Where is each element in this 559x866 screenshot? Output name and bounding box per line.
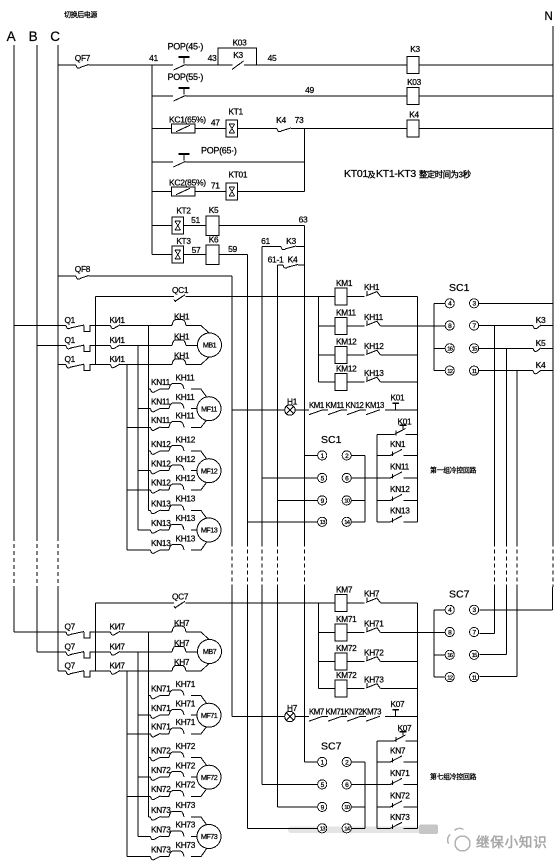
contactor coil KM1 row 1 (335, 288, 347, 305)
wire SC1 right terminal bus (364, 455, 366, 521)
motor MF72 (197, 765, 221, 789)
svg-text:KH71: KH71 (176, 717, 196, 727)
contactor coil KM11 row 2 (318, 325, 335, 327)
svg-text:第一组冷控回路: 第一组冷控回路 (430, 466, 477, 475)
wire feeder SC terminal 15 vertical x506.5 (506, 348, 508, 542)
svg-text:KC2(85%): KC2(85%) (169, 177, 206, 187)
wire feeder node 61-1 vertical x277 (276, 265, 278, 501)
wire row to rail (381, 688, 418, 690)
coil rung contact KN71 (376, 762, 378, 785)
wire fan feeder phase A vertical (148, 325, 150, 510)
svg-text:KM1 KM11 KN12 KM13: KM1 KM11 KN12 KM13 (309, 401, 384, 410)
svg-text:KN71: KN71 (390, 768, 410, 778)
wire SC7-15 from feeder (480, 654, 507, 656)
wire phase A vertical bus (13, 45, 15, 537)
svg-text:KN12: KN12 (151, 459, 171, 469)
terminal SC1-4 (434, 302, 445, 304)
svg-text:12: 12 (447, 369, 452, 375)
svg-text:C: C (50, 29, 60, 44)
svg-text:KN72: KN72 (151, 746, 171, 756)
svg-text:KH12: KH12 (176, 473, 196, 483)
overload heater KH73 pole 3 (169, 851, 184, 857)
svg-text:KN71: KN71 (151, 703, 171, 713)
svg-text:KИ7: KИ7 (110, 641, 126, 651)
wire KT1 to contact K4 (238, 128, 277, 130)
svg-text:KH1: KH1 (174, 351, 190, 361)
wire to heater KH71 pole 1 (161, 695, 170, 697)
wire SC1 terminal 5 line (262, 477, 318, 479)
svg-text:Q7: Q7 (65, 661, 76, 671)
contact KN13 pole 3 (127, 549, 151, 551)
contact KH71 (347, 632, 365, 634)
terminal SC7-13 (318, 824, 327, 833)
wire node 71 (195, 191, 226, 193)
svg-text:QF7: QF7 (75, 53, 91, 63)
watermark logo (448, 828, 470, 851)
svg-text:KN73: KN73 (151, 805, 171, 815)
terminal block SC1 bracket (433, 303, 435, 370)
contact KN72 pole 1 (149, 757, 151, 759)
svg-text:KN12: KN12 (390, 484, 410, 494)
switch Q7 pole 2 (37, 651, 66, 653)
contact KN71 pole 3 (127, 733, 151, 735)
wire K4 coil to N (419, 128, 553, 130)
svg-text:K3: K3 (286, 236, 296, 246)
contact KN12 pole 1 (149, 450, 151, 452)
wire phase row 2 to heater (120, 651, 172, 653)
coil rung contact KN73 (376, 807, 378, 828)
svg-text:KH73: KH73 (364, 674, 384, 684)
svg-text:41: 41 (149, 53, 158, 63)
svg-text:KH11: KH11 (176, 392, 196, 402)
svg-text:MF73: MF73 (201, 832, 218, 841)
svg-text:KT01: KT01 (344, 168, 368, 180)
svg-text:QC1: QC1 (172, 285, 189, 295)
wire to heater KH13 pole 2 (161, 529, 170, 531)
contact KN73 pole 2 (138, 836, 151, 838)
contact KИ1 pole 2 (90, 345, 111, 347)
contact KH13 (347, 381, 365, 383)
wire to heater KH73 pole 2 (161, 836, 170, 838)
wire lamp line (295, 409, 309, 411)
wire to heater KH72 pole 3 (161, 795, 170, 797)
wire row to rail (381, 632, 446, 634)
wire feeder SC terminal 11 vertical x517 (516, 371, 518, 543)
wire QC7 drop vertical (95, 603, 97, 671)
svg-text:KN73: KN73 (390, 812, 410, 822)
motor MF13 (197, 518, 221, 542)
svg-text:43: 43 (208, 53, 217, 63)
svg-text:47: 47 (211, 117, 220, 127)
svg-text:73: 73 (295, 115, 304, 125)
svg-text:KH7: KH7 (174, 657, 190, 667)
coil rung contact KN13 (376, 500, 378, 521)
overload heater KH7 pole 1 (172, 626, 186, 632)
terminal SC1-3 (470, 299, 479, 308)
wire fan feeder phase B vertical (137, 346, 139, 531)
motor MF11 (197, 397, 221, 421)
wire node 63 vertical (304, 226, 306, 247)
wire node 63 (219, 225, 305, 227)
svg-text:KN13: KN13 (151, 538, 171, 548)
wire K03 coil to N (419, 95, 553, 97)
terminal SC1-13 (318, 517, 327, 526)
wire SC7-11 from feeder (480, 675, 517, 677)
svg-text:KH11: KH11 (364, 312, 384, 322)
overload heater KH11 pole 1 (169, 384, 184, 390)
svg-text:KH72: KH72 (176, 741, 196, 751)
svg-text:Q7: Q7 (65, 621, 76, 631)
svg-text:KH1: KH1 (174, 332, 190, 342)
svg-text:61-1: 61-1 (268, 255, 284, 265)
terminal SC7-9 (318, 802, 327, 811)
svg-text:POP(65·): POP(65·) (201, 146, 237, 156)
terminal SC7-11 (470, 673, 479, 682)
wire contactor coil rail vertical (317, 296, 319, 382)
relay coil K6 (206, 245, 219, 264)
wire motor MF13 leads (191, 511, 209, 522)
contact K3 at SC1-7 (479, 325, 533, 327)
svg-text:KИ1: KИ1 (110, 354, 126, 364)
motor MF71 (197, 703, 221, 727)
terminal SC1-12 (434, 370, 445, 372)
contact KN11 pole 2 (138, 408, 151, 410)
svg-text:16: 16 (447, 653, 452, 659)
svg-text:57: 57 (192, 245, 201, 255)
wire row to rail (381, 354, 418, 356)
svg-text:KИ1: KИ1 (110, 335, 126, 345)
overload heater KH72 pole 2 (169, 772, 184, 778)
overload heater KH71 pole 3 (169, 728, 184, 734)
svg-text:KИ7: KИ7 (110, 661, 126, 671)
wire KT01 to junction vertical (238, 191, 305, 193)
svg-text:Q7: Q7 (65, 641, 76, 651)
svg-text:SC7: SC7 (321, 741, 342, 753)
svg-text:59: 59 (228, 244, 237, 254)
overload heater KH11 pole 2 (169, 403, 184, 409)
svg-text:KN72: KN72 (390, 791, 410, 801)
svg-text:KT3: KT3 (176, 236, 191, 246)
svg-text:KH13: KH13 (176, 513, 196, 523)
terminal SC1-5 (318, 473, 327, 482)
switch Q1 pole 2 (37, 345, 66, 347)
svg-text:KM11: KM11 (336, 308, 357, 318)
svg-text:KH72: KH72 (176, 780, 196, 790)
svg-text:KM12: KM12 (336, 337, 357, 347)
terminal block SC7 bracket (433, 610, 435, 677)
wire feeder SC terminal 7 vertical x494.5 (494, 326, 496, 543)
wire QC7 line to contactor rail (186, 602, 336, 604)
svg-text:11: 11 (472, 369, 477, 375)
relay coil K4 (407, 120, 419, 137)
svg-text:KH73: KH73 (176, 840, 196, 850)
svg-text:继保小知识: 继保小知识 (476, 834, 548, 850)
wire feeder node 59 vertical x247.5 (247, 255, 249, 522)
relay coil K03 (407, 88, 419, 105)
terminal SC7-4 (434, 609, 445, 611)
svg-text:KN11: KN11 (151, 377, 171, 387)
terminal SC7-16 (434, 654, 445, 656)
terminal SC7-7 (470, 627, 479, 636)
contact KИ1 pole 1 (90, 324, 111, 326)
svg-text:KM7: KM7 (336, 585, 353, 595)
contact KN73 pole 1 (149, 816, 151, 818)
terminal SC7-5 (318, 780, 327, 789)
svg-text:KH73: KH73 (176, 800, 196, 810)
svg-text:切换后电源: 切换后电源 (64, 10, 97, 19)
wire motor MF12 leads (191, 451, 209, 462)
svg-text:KH13: KH13 (176, 533, 196, 543)
svg-text:K4: K4 (288, 255, 298, 265)
wire phase row 2 to heater (120, 345, 172, 347)
contact KN13 pole 1 (149, 510, 151, 512)
svg-text:B: B (29, 29, 38, 44)
svg-text:10: 10 (344, 499, 349, 505)
overload heater KH12 pole 1 (169, 446, 184, 452)
svg-text:15: 15 (472, 653, 477, 659)
svg-text:KH1: KH1 (364, 282, 380, 292)
overload heater KH1 pole 2 (172, 340, 186, 346)
wire row to rail (381, 381, 418, 383)
wire SC1 terminal 13 line (248, 521, 318, 523)
wire N vertical bus (552, 26, 554, 543)
wire contactor rail vertical (416, 603, 418, 741)
motor MF73 (197, 825, 221, 849)
terminal SC7-6 (342, 780, 351, 789)
svg-text:KN7: KN7 (390, 746, 406, 756)
wire QC1 line to contactor rail (186, 295, 336, 297)
svg-text:K3: K3 (233, 50, 243, 60)
svg-text:K4: K4 (276, 115, 286, 125)
wire feeder node 61 vertical x262 (261, 247, 263, 478)
coil rung contact KN12 (376, 478, 378, 501)
wire SC1-3 to N (479, 302, 553, 304)
svg-text:K3: K3 (410, 44, 420, 54)
contact K4 at SC1-11 (479, 370, 533, 372)
wire lamp line (295, 716, 309, 718)
terminal SC1-8 (445, 321, 454, 330)
overload heater KH13 pole 1 (169, 505, 184, 511)
svg-text:KH13: KH13 (176, 494, 196, 504)
svg-text:13: 13 (320, 827, 325, 833)
wire motor MB7 phase leads (186, 632, 210, 641)
contact KN11 pole 3 (127, 426, 151, 428)
contact KH7 (347, 602, 365, 604)
svg-text:Q1: Q1 (65, 354, 76, 364)
wire row to rail (381, 602, 418, 604)
watermark streak (288, 827, 438, 834)
overload heater KH7 pole 3 (172, 665, 186, 671)
svg-text:KN72: KN72 (151, 784, 171, 794)
svg-text:KH13: KH13 (364, 368, 384, 378)
contact KH73 (347, 688, 365, 690)
wire SC7 terminal 13 line (248, 827, 318, 829)
svg-text:13: 13 (320, 520, 325, 526)
wire feeder node QF8 vertical x232 (231, 276, 233, 410)
terminal SC7-15 (470, 650, 479, 659)
wire to heater KH12 pole 2 (161, 470, 170, 472)
contact KИ7 pole 2 (90, 651, 111, 653)
overload heater KH1 pole 3 (172, 359, 186, 365)
wire phase row 1 to heater (120, 631, 172, 633)
wire to heater KH73 pole 1 (161, 816, 170, 818)
wire row to rail (381, 295, 418, 297)
wire motor MF73 leads (191, 817, 209, 828)
contact KИ1 pole 3 (90, 364, 111, 366)
terminal SC7-8 (445, 627, 454, 636)
coil rung contact KN1 (376, 435, 378, 456)
svg-text:10: 10 (344, 805, 349, 811)
wire SC7 terminal 1 stub (305, 761, 318, 763)
contact KN72 pole 3 (127, 795, 151, 797)
svg-text:KH11: KH11 (176, 372, 196, 382)
wire SC1 terminal 1 stub (305, 454, 318, 456)
svg-text:KN73: KN73 (151, 824, 171, 834)
svg-text:KH7: KH7 (174, 638, 190, 648)
wire QF8 to control feeder (89, 275, 233, 277)
svg-text:Q1: Q1 (65, 335, 76, 345)
svg-text:KH12: KH12 (364, 341, 384, 351)
wire POP(65) to junction (186, 161, 305, 163)
contact KN72 pole 2 (138, 776, 151, 778)
svg-text:KN13: KN13 (151, 498, 171, 508)
overload heater KH12 pole 3 (169, 484, 184, 490)
svg-text:KM72: KM72 (336, 670, 357, 680)
overload heater KH73 pole 1 (169, 811, 184, 817)
overload heater KH12 pole 2 (169, 465, 184, 471)
terminal SC1-14 (342, 517, 351, 526)
svg-text:71: 71 (211, 180, 220, 190)
contactor coil KM71 row 2 (318, 632, 335, 634)
svg-text:KM72: KM72 (336, 643, 357, 653)
svg-text:MF71: MF71 (201, 711, 218, 720)
terminal SC7-10 (342, 802, 351, 811)
wire motor MF11 leads (191, 389, 209, 400)
svg-text:SC7: SC7 (449, 589, 470, 601)
svg-text:K4: K4 (409, 110, 419, 120)
wire fan feeder phase C vertical (126, 671, 128, 857)
svg-text:MF12: MF12 (201, 466, 218, 475)
svg-text:K5: K5 (209, 205, 219, 215)
terminal SC7-1 (318, 757, 327, 766)
svg-text:KH1: KH1 (174, 311, 190, 321)
wire to heater KH71 pole 3 (161, 733, 170, 735)
wire lamp line junction to ladder rail (416, 410, 418, 435)
overload heater KH72 pole 1 (169, 752, 184, 758)
svg-text:KH71: KH71 (364, 618, 384, 628)
wire fan feeder phase A vertical (148, 632, 150, 817)
contact KN12 pole 2 (138, 470, 151, 472)
wire SC1 terminal 9 line (277, 499, 317, 501)
svg-text:K07: K07 (391, 699, 406, 709)
overload heater KH71 pole 2 (169, 710, 184, 716)
overload heater KH7 pole 2 (172, 646, 186, 652)
svg-text:KN11: KN11 (151, 397, 171, 407)
wire node 47 (195, 128, 226, 130)
svg-text:KN71: KN71 (151, 684, 171, 694)
svg-text:K03: K03 (407, 77, 422, 87)
wire motor MF71 leads (191, 696, 209, 707)
svg-text:KT1: KT1 (229, 107, 244, 117)
wire to heater KH72 pole 2 (161, 776, 170, 778)
svg-text:KN1: KN1 (390, 439, 406, 449)
terminal SC1-2 (342, 451, 351, 460)
wire contactor rail vertical (416, 296, 418, 434)
coil rung contact KN11 (376, 455, 378, 478)
svg-text:49: 49 (305, 85, 314, 95)
svg-text:63: 63 (299, 215, 308, 225)
svg-text:SC1: SC1 (321, 434, 342, 446)
svg-text:第七组冷控回路: 第七组冷控回路 (430, 772, 477, 781)
svg-text:61: 61 (261, 236, 270, 246)
svg-text:KT2: KT2 (176, 206, 191, 216)
terminal SC1-1 (318, 451, 327, 460)
wire node 51 (183, 225, 206, 227)
contact KN71 pole 2 (138, 714, 151, 716)
terminal SC1-6 (342, 473, 351, 482)
svg-text:45: 45 (268, 53, 277, 63)
wire to heater KH11 pole 1 (161, 388, 170, 390)
overload heater KH73 pole 2 (169, 831, 184, 837)
svg-text:KN72: KN72 (151, 765, 171, 775)
contact K03 parallel branch with contact K3 (218, 48, 256, 65)
svg-text:15: 15 (472, 347, 477, 353)
svg-text:KH12: KH12 (176, 434, 196, 444)
wire lamp line junction to ladder rail (416, 717, 418, 742)
terminal SC1-9 (318, 496, 327, 505)
svg-text:A: A (7, 29, 16, 44)
contactor coil KM72 row 3 (318, 661, 335, 663)
svg-text:KH73: KH73 (176, 820, 196, 830)
svg-text:KM71: KM71 (336, 614, 357, 624)
svg-text:SC1: SC1 (449, 282, 470, 294)
overload heater KH13 pole 2 (169, 524, 184, 530)
contact KN73 pole 3 (127, 856, 151, 858)
wire row to rail (381, 661, 418, 663)
wire row 49 to coil K03 (152, 95, 173, 97)
svg-text:Q1: Q1 (65, 315, 76, 325)
svg-text:KH7: KH7 (364, 589, 380, 599)
svg-text:MB7: MB7 (203, 647, 217, 656)
svg-text:KN11: KN11 (151, 415, 171, 425)
wire phase B vertical bus (36, 45, 38, 537)
svg-text:QF8: QF8 (75, 264, 91, 274)
wire to heater KH72 pole 1 (161, 757, 170, 759)
contact KH11 (347, 325, 365, 327)
svg-text:K03: K03 (233, 38, 248, 48)
svg-text:11: 11 (472, 675, 477, 681)
wire to heater KH13 pole 1 (161, 510, 170, 512)
svg-text:KH72: KH72 (364, 647, 384, 657)
svg-text:POP(45·): POP(45·) (168, 42, 204, 52)
wire to heater KH11 pole 3 (161, 426, 170, 428)
contact KN13 pole 2 (138, 529, 151, 531)
svg-text:KT01: KT01 (229, 170, 248, 180)
terminal SC1-15 (470, 344, 479, 353)
contactor coil KM12 row 4 (318, 381, 335, 383)
svg-text:K01: K01 (391, 393, 406, 403)
lamp H7 (232, 716, 285, 718)
wire row 41 from QF7 to POP(45) (89, 64, 174, 66)
svg-text:KM7 KM71KN72KM73: KM7 KM71KN72KM73 (309, 708, 381, 717)
svg-text:MF11: MF11 (201, 404, 217, 413)
svg-text:16: 16 (447, 347, 452, 353)
svg-text:KH72: KH72 (176, 760, 196, 770)
svg-text:K6: K6 (209, 235, 219, 245)
svg-text:N: N (544, 11, 552, 23)
wire to heater KH13 pole 3 (161, 549, 170, 551)
wire to heater KH11 pole 2 (161, 408, 170, 410)
